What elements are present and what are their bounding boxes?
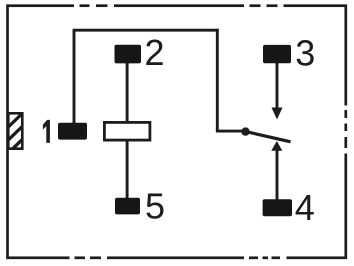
wire: pin 4 up <box>276 149 279 200</box>
svg-text:3: 3 <box>295 32 315 73</box>
wire: pin 2 to coil <box>126 62 129 123</box>
wire: pin 3 down <box>276 62 279 110</box>
svg-text:2: 2 <box>145 32 165 73</box>
wire: coil to pin 5 <box>126 140 129 199</box>
switch armature blade <box>246 132 291 142</box>
svg-text:5: 5 <box>145 185 165 226</box>
pin 3 terminal <box>263 45 291 63</box>
pin 2 terminal <box>115 45 142 64</box>
wire: top horizontal run <box>73 29 219 32</box>
node: switch pivot <box>241 127 249 135</box>
pin 1 terminal <box>58 123 87 140</box>
pin 4 terminal <box>263 199 292 216</box>
arrow: pin 3 contact (points down) <box>272 108 283 120</box>
relay coil <box>104 122 149 140</box>
case orientation mark <box>3 107 29 158</box>
wire: horizontal to switch pivot <box>216 130 246 133</box>
pin 5 terminal <box>115 198 140 215</box>
wire: right vertical drop to switch <box>216 29 219 131</box>
label: pin 1 <box>43 120 50 143</box>
arrow: pin 4 contact (points up) <box>271 141 282 151</box>
svg-text:4: 4 <box>295 187 315 228</box>
wire: pin 1 up <box>73 30 76 124</box>
